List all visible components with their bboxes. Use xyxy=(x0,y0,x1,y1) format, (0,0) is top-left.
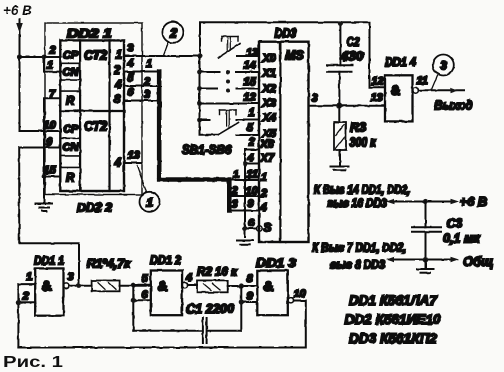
svg-text:X2: X2 xyxy=(262,83,276,95)
svg-text:11: 11 xyxy=(417,75,428,87)
svg-text:9: 9 xyxy=(248,198,255,210)
svg-text:2: 2 xyxy=(169,26,177,40)
svg-text:1: 1 xyxy=(146,58,152,70)
svg-text:R1*4,7к: R1*4,7к xyxy=(87,257,131,271)
svg-text:6: 6 xyxy=(142,289,149,301)
svg-text:4: 4 xyxy=(114,80,122,92)
wire address 4 to pin 9 xyxy=(229,210,259,212)
wire input 5 xyxy=(133,284,151,286)
wire X2 pin 15 xyxy=(202,88,260,90)
wire input 9 xyxy=(241,301,257,303)
svg-text:9: 9 xyxy=(247,291,254,303)
svg-text:1: 1 xyxy=(47,60,53,72)
svg-text:DD2 2: DD2 2 xyxy=(77,201,112,215)
svg-text:&: & xyxy=(42,278,52,294)
wire switches common vertical xyxy=(200,56,218,135)
svg-text:1: 1 xyxy=(249,107,255,119)
svg-text:CP: CP xyxy=(63,124,79,136)
wire CN2 pin9 feedback from DD1.1 output xyxy=(19,148,79,286)
svg-text:&: & xyxy=(391,82,401,98)
capacitor C3 xyxy=(425,202,427,228)
svg-text:СТ2: СТ2 xyxy=(84,120,107,134)
svg-text:X3: X3 xyxy=(262,98,276,110)
svg-text:R2 16 к: R2 16 к xyxy=(197,265,238,279)
resistor R1 xyxy=(92,281,120,292)
svg-text:CN: CN xyxy=(63,142,80,154)
ground (DD3 X6 X7 S) xyxy=(237,240,253,242)
resistor R2 xyxy=(197,280,228,292)
svg-text:S: S xyxy=(264,221,272,235)
svg-text:MS: MS xyxy=(285,49,304,63)
wire DD3 output pin 3 xyxy=(309,105,386,107)
svg-text:7: 7 xyxy=(49,89,56,101)
svg-text:DD1 3: DD1 3 xyxy=(256,256,296,270)
wire address 2 to pin 10 xyxy=(229,195,259,197)
svg-text:3: 3 xyxy=(144,89,150,101)
svg-text:X7: X7 xyxy=(260,153,275,165)
svg-text:&: & xyxy=(264,278,274,294)
ellipsis dots (omitted switches) xyxy=(226,71,230,75)
bus (thick) from DD2 outputs to DD3 address inputs xyxy=(159,72,229,211)
wire input tie vertical xyxy=(17,284,19,347)
svg-text:К Выв 7 DD1, DD2,: К Выв 7 DD1, DD2, xyxy=(312,241,406,255)
wire X7 pin 4 xyxy=(245,163,259,165)
wire CN pin1 branch xyxy=(44,57,61,72)
svg-text:С1 2200: С1 2200 xyxy=(186,302,234,316)
svg-text:X0: X0 xyxy=(262,53,277,65)
svg-text:DD3 К561КП2: DD3 К561КП2 xyxy=(349,330,437,346)
switch SB6 xyxy=(218,123,239,135)
svg-text:CP: CP xyxy=(63,50,79,62)
svg-text:9: 9 xyxy=(46,137,53,149)
svg-text:DD2 К561ИЕ10: DD2 К561ИЕ10 xyxy=(345,311,441,327)
wire X4 pin 1 xyxy=(200,119,260,122)
svg-text:С2: С2 xyxy=(347,35,360,49)
svg-text:3: 3 xyxy=(68,271,74,283)
wire X1 pin 14 xyxy=(202,71,260,73)
svg-text:5: 5 xyxy=(247,122,254,134)
svg-text:выв 8 DD3: выв 8 DD3 xyxy=(330,258,385,272)
wire DD2 pin4 output to bus xyxy=(124,71,158,73)
svg-text:СТ2: СТ2 xyxy=(84,49,107,63)
wire R2 to DD1.3 xyxy=(228,285,258,287)
wire CP2 pin10 feed xyxy=(20,130,61,132)
wire input 1 xyxy=(18,283,35,285)
counter DD2 symbol box xyxy=(60,40,124,191)
junction +6V to CP/CN xyxy=(17,54,22,59)
wire DD2 pin5 output to bus xyxy=(124,85,158,87)
svg-text:5: 5 xyxy=(128,72,135,84)
svg-text:Выход: Выход xyxy=(435,98,473,113)
svg-text:430: 430 xyxy=(339,50,363,64)
svg-text:R: R xyxy=(66,173,75,185)
svg-text:2: 2 xyxy=(248,137,255,149)
svg-text:14: 14 xyxy=(244,60,256,72)
svg-text:3: 3 xyxy=(128,43,134,55)
node circle 3 xyxy=(432,75,438,89)
wire input 2 xyxy=(18,301,35,303)
wire X0 to pin 13 xyxy=(237,55,260,57)
svg-text:12: 12 xyxy=(244,92,256,104)
wire DD2 pin13 output xyxy=(124,162,142,164)
svg-text:15: 15 xyxy=(244,76,257,88)
gate DD1.3 xyxy=(257,271,288,316)
switch SB1 xyxy=(219,44,241,58)
svg-text:X6: X6 xyxy=(260,139,275,151)
wire RC node vertical left xyxy=(132,285,134,331)
svg-text:3: 3 xyxy=(232,199,238,211)
svg-text:11: 11 xyxy=(247,169,258,181)
svg-text:X1: X1 xyxy=(262,68,276,80)
wire output xyxy=(419,89,465,91)
svg-text:2: 2 xyxy=(143,76,150,88)
svg-text:10: 10 xyxy=(246,186,259,198)
svg-text:12: 12 xyxy=(372,76,384,88)
gate DD1.4 xyxy=(385,75,413,121)
svg-text:DD1 4: DD1 4 xyxy=(385,55,416,69)
wire switches common rail up and top rail to DD1.4 xyxy=(200,22,385,87)
svg-text:2: 2 xyxy=(49,45,56,57)
svg-text:3: 3 xyxy=(312,93,318,105)
svg-text:4: 4 xyxy=(127,58,134,70)
svg-text:300 к: 300 к xyxy=(350,136,377,150)
wire output feedback to DD1.1 xyxy=(18,301,305,348)
wire DD2 pin6 output to bus xyxy=(124,100,158,102)
svg-text:6: 6 xyxy=(248,217,255,229)
svg-text:6: 6 xyxy=(128,87,135,99)
svg-text:4: 4 xyxy=(260,202,267,214)
svg-text:DD1 2: DD1 2 xyxy=(150,253,181,267)
svg-text:DD2 1: DD2 1 xyxy=(67,27,112,41)
ground (C3) xyxy=(425,260,427,269)
svg-text:13: 13 xyxy=(128,150,140,162)
ground (DD2 R pins) xyxy=(43,177,45,204)
svg-text:+6 В: +6 В xyxy=(3,3,32,18)
svg-text:выв 16 DD3: выв 16 DD3 xyxy=(327,196,387,210)
svg-text:2: 2 xyxy=(22,291,29,303)
svg-text:2: 2 xyxy=(231,185,238,197)
multiplexer DD3 xyxy=(259,42,309,242)
gate DD1.2 xyxy=(151,271,182,316)
wire DD2 pin3 output to switches common and top rail xyxy=(124,55,200,57)
svg-text:5: 5 xyxy=(142,273,149,285)
resistor R3 xyxy=(338,106,340,122)
svg-text:CN: CN xyxy=(63,67,80,79)
node circle 1 xyxy=(137,166,147,193)
wire S pin 6 xyxy=(245,228,256,230)
wire R1 to DD1.2 xyxy=(120,285,151,287)
wire R pin7 to ground xyxy=(44,98,60,176)
svg-text:4: 4 xyxy=(114,158,122,170)
wire CP pin2 feed xyxy=(20,56,62,58)
capacitor C1 xyxy=(133,330,201,332)
svg-text:1: 1 xyxy=(116,50,122,62)
svg-text:+6 В: +6 В xyxy=(460,194,488,209)
svg-text:8: 8 xyxy=(247,273,254,285)
svg-text:К Выв 14 DD1, DD2,: К Выв 14 DD1, DD2, xyxy=(314,183,410,197)
junction output node xyxy=(337,103,343,109)
svg-text:DD1 1: DD1 1 xyxy=(34,254,64,268)
svg-text:4: 4 xyxy=(185,272,192,284)
svg-text:&: & xyxy=(158,278,168,294)
wire X3 pin 12 xyxy=(200,103,260,105)
wire RC node vertical right xyxy=(240,286,242,331)
wire X6 pin 2 to ground xyxy=(245,150,259,238)
ground (R3) xyxy=(331,166,349,168)
svg-text:С3: С3 xyxy=(447,217,463,231)
wire +6V vertical feed xyxy=(19,19,21,131)
svg-text:Рис. 1: Рис. 1 xyxy=(3,354,63,371)
svg-text:13: 13 xyxy=(371,92,383,104)
svg-text:2: 2 xyxy=(260,188,267,200)
svg-text:DD3: DD3 xyxy=(275,27,297,41)
svg-text:13: 13 xyxy=(246,47,258,59)
svg-text:4: 4 xyxy=(247,152,254,164)
svg-text:Общ: Общ xyxy=(463,254,493,269)
svg-text:1: 1 xyxy=(261,172,267,184)
svg-text:R3: R3 xyxy=(350,121,366,135)
gate DD1.1 xyxy=(35,268,63,315)
wire address 1 to pin 11 xyxy=(229,179,259,181)
svg-text:1: 1 xyxy=(233,169,239,181)
svg-text:X4: X4 xyxy=(262,112,276,124)
svg-text:3: 3 xyxy=(440,59,447,73)
wire input 6 xyxy=(133,299,151,301)
svg-text:1: 1 xyxy=(26,271,32,283)
svg-text:10: 10 xyxy=(294,288,307,300)
capacitor C2 xyxy=(339,23,341,65)
wire R2 pin15 to ground xyxy=(44,176,60,178)
svg-text:1: 1 xyxy=(147,196,154,210)
wire output to R1 xyxy=(69,285,92,287)
svg-text:R: R xyxy=(66,96,75,108)
wire X5 pin 5 xyxy=(237,134,260,136)
svg-text:8: 8 xyxy=(114,94,121,106)
node circle 2 xyxy=(164,43,169,56)
svg-text:SB1-SB6: SB1-SB6 xyxy=(182,143,232,157)
svg-text:2: 2 xyxy=(113,65,121,77)
svg-text:0,1 мк: 0,1 мк xyxy=(443,232,480,246)
wire output to R2 xyxy=(188,284,197,286)
svg-text:DD1 К561ЛА7: DD1 К561ЛА7 xyxy=(349,292,438,308)
counter DD2 outer package box xyxy=(45,23,142,195)
